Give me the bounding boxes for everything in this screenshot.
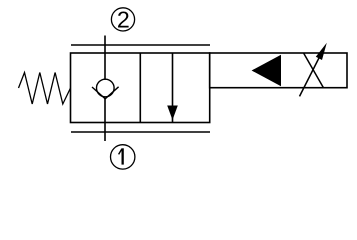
port 2 stem wire [104,36,106,80]
flow path arrow (position 2) [167,53,178,122]
check valve seat [92,87,119,99]
node 1 label circle [111,145,135,169]
cartridge bottom boundary line [71,131,210,133]
position divider [139,53,141,123]
check valve ball [97,79,115,97]
solenoid box [210,53,347,88]
node 2 label circle [111,6,134,32]
port 1 stem wire [104,99,106,142]
valve body envelope (two-position) [71,53,210,123]
spring [19,73,71,105]
svg-text:2: 2 [117,6,130,32]
solenoid triangle [252,55,281,87]
adjustability arrow [300,43,327,97]
proportional cross diagonal [304,53,324,87]
cartridge top boundary line [71,44,210,46]
